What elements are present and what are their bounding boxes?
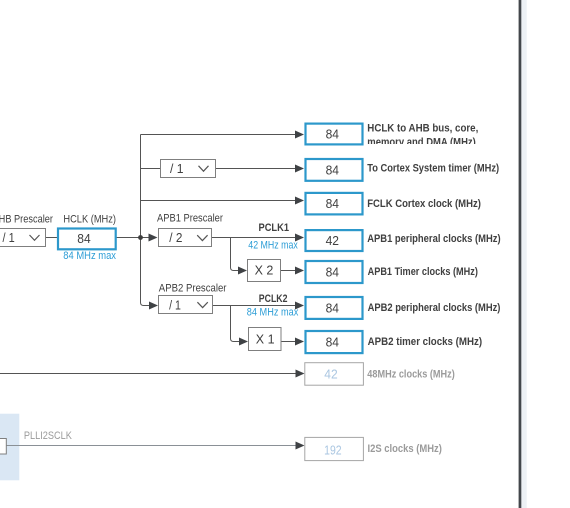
svg-text:PCLK1: PCLK1 [259, 222, 290, 234]
svg-text:84: 84 [326, 265, 339, 280]
svg-text:84: 84 [77, 231, 90, 246]
svg-text:To Cortex System timer (MHz): To Cortex System timer (MHz) [367, 163, 499, 175]
svg-text:84: 84 [326, 301, 339, 316]
svg-text:I2S clocks (MHz): I2S clocks (MHz) [368, 443, 443, 455]
svg-text:84: 84 [326, 196, 339, 211]
svg-text:84: 84 [326, 163, 339, 178]
svg-text:/ 1: / 1 [169, 297, 181, 312]
svg-text:/ 1: / 1 [3, 230, 15, 245]
svg-text:/ 1: / 1 [170, 161, 184, 176]
svg-text:APB2 timer clocks (MHz): APB2 timer clocks (MHz) [368, 336, 483, 348]
svg-text:84 MHz max: 84 MHz max [247, 306, 299, 318]
svg-text:X 2: X 2 [255, 264, 274, 278]
svg-text:84: 84 [326, 127, 339, 142]
svg-text:PCLK2: PCLK2 [259, 293, 288, 305]
svg-text:APB1 Timer clocks (MHz): APB1 Timer clocks (MHz) [368, 266, 479, 278]
svg-text:42: 42 [326, 233, 339, 248]
svg-text:AHB Prescaler: AHB Prescaler [0, 214, 53, 226]
svg-text:APB1 peripheral clocks (MHz): APB1 peripheral clocks (MHz) [367, 233, 501, 245]
svg-text:/ 2: / 2 [169, 230, 182, 245]
svg-text:APB2 Prescaler: APB2 Prescaler [159, 282, 227, 294]
svg-text:84 MHz max: 84 MHz max [63, 250, 116, 262]
svg-text:APB1 Prescaler: APB1 Prescaler [157, 213, 223, 225]
svg-text:APB2 peripheral clocks (MHz): APB2 peripheral clocks (MHz) [368, 302, 501, 314]
svg-text:42 MHz max: 42 MHz max [248, 240, 298, 252]
svg-text:FCLK Cortex clock (MHz): FCLK Cortex clock (MHz) [367, 198, 481, 210]
svg-text:HCLK to AHB bus, core,: HCLK to AHB bus, core, [367, 123, 478, 135]
svg-text:192: 192 [324, 442, 342, 457]
svg-text:84: 84 [326, 335, 339, 350]
svg-text:42: 42 [324, 367, 337, 382]
svg-text:PLLI2SCLK: PLLI2SCLK [24, 430, 73, 442]
svg-text:HCLK (MHz): HCLK (MHz) [63, 214, 116, 226]
svg-text:48MHz clocks (MHz): 48MHz clocks (MHz) [367, 368, 455, 380]
svg-text:X 1: X 1 [256, 333, 275, 347]
